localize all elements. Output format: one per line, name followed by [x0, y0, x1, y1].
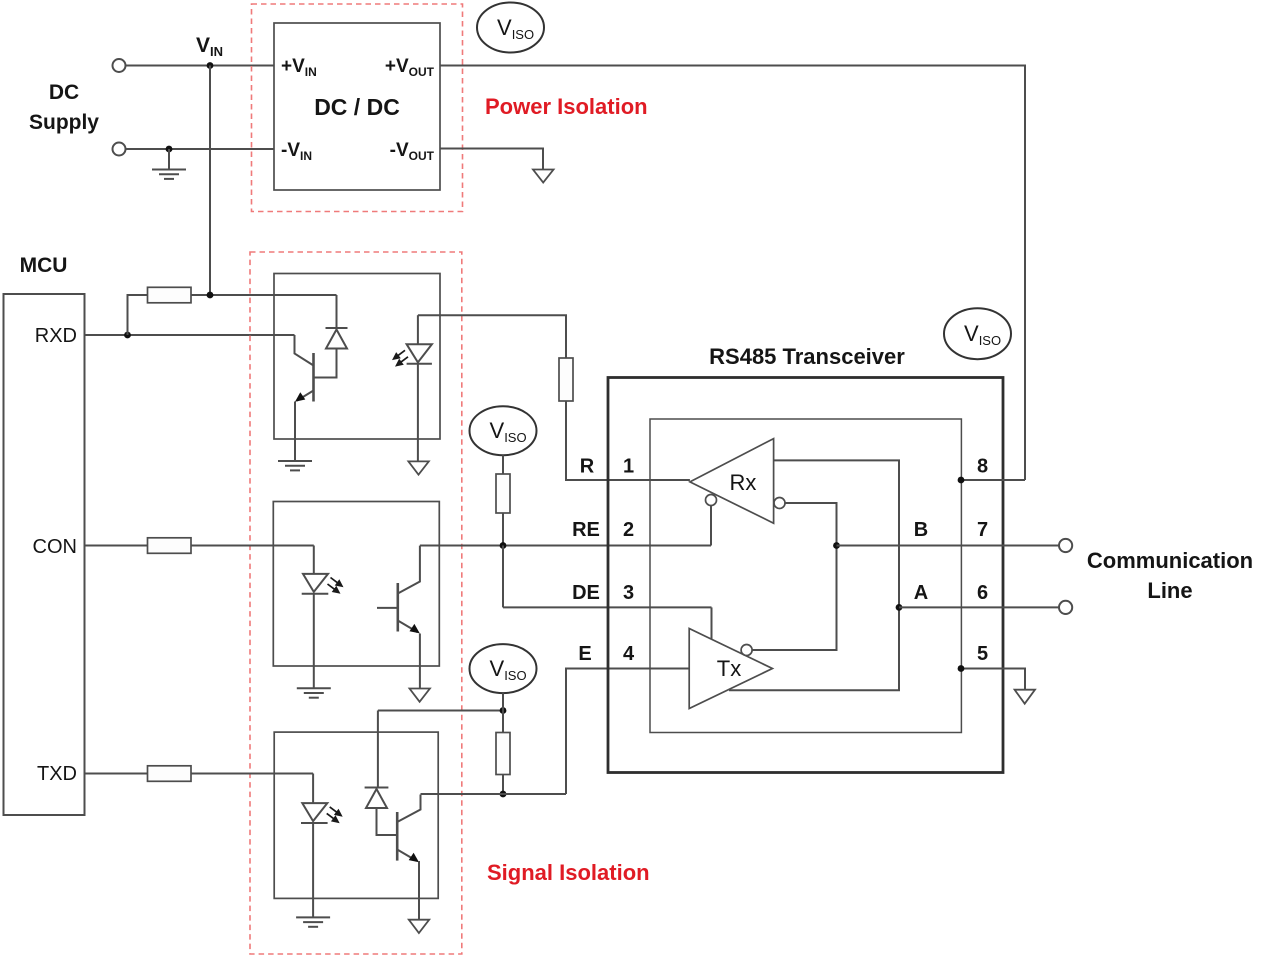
iso ground arrow (opto3 emitter): [409, 920, 429, 933]
optocoupler U4 box: [274, 732, 438, 898]
svg-text:Line: Line: [1147, 578, 1192, 603]
resistor R6 (E pulldown): [502, 711, 504, 733]
LED light arrows (opto2, pointing right-down): [328, 578, 342, 593]
MCU box: [4, 294, 85, 815]
svg-text:5: 5: [977, 643, 988, 665]
svg-text:Tx: Tx: [717, 656, 741, 681]
phototransistor Q2 (opto2): [377, 546, 420, 689]
node pin8: [958, 477, 965, 484]
svg-text:8: 8: [977, 456, 988, 478]
receiver Rx input wire from bus A: [729, 460, 899, 690]
wire pin5 to iso ground: [961, 669, 1025, 690]
optocoupler U2 box: [274, 274, 440, 440]
LED D2 (opto1): [407, 315, 432, 461]
node RE junction: [500, 542, 507, 549]
wire RE resistor to RE row: [502, 513, 504, 546]
wire VISO to E node: [502, 693, 504, 710]
bubble Rx enable: [706, 495, 717, 506]
node DC supply ground junction: [166, 146, 173, 153]
svg-text:RS485 Transceiver: RS485 Transceiver: [709, 344, 905, 369]
wire A row to terminal: [899, 606, 1059, 608]
wire +VOUT to pin8 rail: [440, 66, 1025, 481]
wire RE to DE link: [502, 546, 504, 608]
terminal DC supply +: [113, 59, 126, 72]
terminal A: [1059, 601, 1072, 614]
transceiver outer box: [608, 378, 1003, 773]
op-amp Rx (receiver): [690, 439, 774, 524]
bubble Tx enable: [741, 645, 752, 656]
node E pullup top: [500, 707, 507, 714]
svg-text:Signal Isolation: Signal Isolation: [487, 860, 650, 885]
wire VISO to RE resistor: [502, 455, 504, 474]
node RXD pullup junction: [124, 332, 131, 339]
node bus A junction: [896, 604, 903, 611]
wire TXD: [85, 773, 148, 775]
LED D3 (opto2): [302, 546, 329, 689]
phototransistor Q3 (opto3): [397, 795, 420, 920]
svg-text:B: B: [914, 519, 928, 541]
wire pin8 row: [961, 479, 1025, 481]
svg-text:MCU: MCU: [20, 254, 68, 277]
photodiode D1 (opto1): [314, 328, 348, 378]
wire opto3 collector to E riser: [421, 793, 567, 795]
node pin5: [958, 665, 965, 672]
LED light arrows (opto1, pointing left-down): [394, 350, 408, 365]
iso ground arrow (-VOUT): [533, 170, 554, 183]
ground earth (opto3 LED): [296, 917, 330, 926]
resistor R2 CON: [148, 538, 192, 554]
VISO oval RE: [470, 406, 537, 455]
wire B row to terminal: [837, 545, 1060, 547]
svg-text:1: 1: [623, 456, 634, 478]
svg-text:7: 7: [977, 519, 988, 541]
wire +DC supply to DC/DC: [126, 65, 275, 67]
wire opto1 diode feed: [336, 295, 338, 328]
iso ground arrow (opto1 LED): [408, 461, 428, 474]
optocoupler U3 box: [273, 502, 439, 667]
wire RXD: [85, 334, 295, 336]
transceiver inner box: [650, 419, 961, 733]
VISO oval top: [477, 3, 544, 53]
svg-text:RXD: RXD: [35, 325, 77, 347]
node VIN rail to resistor: [207, 292, 214, 299]
resistor R1 RXD pullup: [148, 287, 192, 303]
svg-text:Rx: Rx: [730, 470, 757, 495]
svg-text:6: 6: [977, 582, 988, 604]
node bus B junction: [833, 542, 840, 549]
wire E riser and E row: [566, 669, 689, 795]
svg-text:DE: DE: [572, 582, 600, 604]
node VIN junction: [207, 62, 214, 69]
ground earth (DC supply): [152, 149, 186, 179]
DE enable riser: [711, 607, 713, 641]
LED D4 (opto3): [301, 774, 328, 918]
terminal DC supply -: [113, 143, 126, 156]
LED light arrows (opto3, pointing right-down): [327, 807, 341, 822]
svg-text:Communication: Communication: [1087, 548, 1253, 573]
DC/DC converter U1: [274, 23, 440, 190]
wire R resistor to pin1 row: [566, 401, 690, 480]
signal isolation dashed border: [250, 252, 462, 954]
wire resistor to VIN node and opto1 anode feed: [191, 294, 337, 296]
photodiode D5 (opto3): [365, 711, 398, 836]
wire -VOUT to iso ground: [440, 149, 543, 170]
wire VIN rail: [209, 66, 211, 296]
wire CON resistor to LED: [191, 545, 314, 547]
iso ground arrow (opto2 emitter): [410, 689, 430, 702]
op-amp Tx (driver): [689, 629, 772, 709]
svg-text:Supply: Supply: [29, 111, 99, 134]
VISO oval pin8: [944, 308, 1011, 359]
receiver Rx input wire from bus B: [752, 503, 836, 650]
svg-text:A: A: [914, 582, 928, 604]
resistor R4 (R line): [559, 358, 573, 401]
VISO oval E: [470, 644, 537, 693]
resistor R3 TXD: [148, 766, 192, 782]
svg-text:3: 3: [623, 582, 634, 604]
svg-text:RE: RE: [572, 519, 600, 541]
svg-text:TXD: TXD: [37, 763, 77, 785]
svg-text:4: 4: [623, 643, 635, 665]
svg-text:Power Isolation: Power Isolation: [485, 94, 648, 119]
wire DE row: [503, 606, 712, 608]
wire opto3 anode feed row: [378, 710, 503, 712]
phototransistor Q1 (opto1): [295, 335, 314, 461]
svg-text:2: 2: [623, 519, 634, 541]
bubble Rx inverting input: [774, 498, 785, 509]
wire opto1 LED to R resistor: [418, 315, 566, 358]
ground earth (opto2 LED): [297, 688, 331, 697]
wire -DC supply to DC/DC: [126, 148, 275, 150]
terminal B: [1059, 539, 1072, 552]
svg-text:DC: DC: [49, 81, 79, 104]
wire RE row (opto2 collector to transceiver): [420, 545, 711, 547]
svg-text:CON: CON: [33, 536, 77, 558]
wire CON: [85, 545, 148, 547]
power isolation dashed border: [252, 4, 463, 212]
iso ground arrow (pin5): [1015, 690, 1035, 704]
node E row bottom: [500, 791, 507, 798]
svg-text:DC / DC: DC / DC: [314, 94, 400, 120]
svg-text:VIN: VIN: [196, 34, 223, 59]
resistor R5 (RE pullup): [496, 474, 510, 513]
RE enable riser: [710, 506, 712, 546]
svg-text:E: E: [578, 643, 591, 665]
ground earth (opto1 emitter): [278, 461, 312, 470]
svg-text:R: R: [580, 456, 595, 478]
wire pullup to resistor: [128, 295, 148, 335]
wire TXD resistor to LED: [191, 773, 313, 775]
